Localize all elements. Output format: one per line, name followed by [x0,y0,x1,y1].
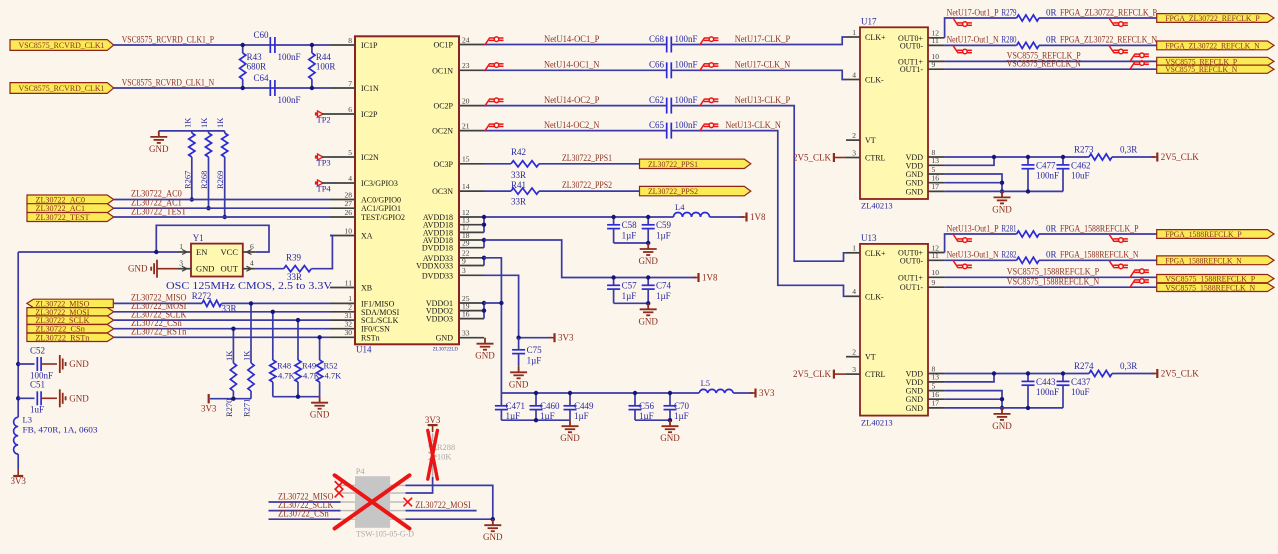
diff-pair marker VSC8575_REFCLK_N [1130,61,1149,69]
U17 pin 9 OUT1- [928,68,945,70]
wire R274 to 2V5_CLK [1112,373,1155,375]
svg-text:XB: XB [361,284,372,293]
ground (R267 group) [150,131,167,143]
svg-text:16: 16 [932,174,940,183]
svg-text:TP3: TP3 [317,157,331,167]
U14 pin 32 IF0/CSN [330,328,355,330]
capacitor C477 100nF [1027,157,1029,165]
wire FPGA_ZL30722_REFCLK_P [1039,17,1157,19]
wire NetU17-Out1_N [945,44,1017,46]
svg-text:GND: GND [906,170,924,179]
svg-text:C59: C59 [656,220,672,230]
svg-text:17: 17 [932,399,940,408]
svg-text:VDDXO33: VDDXO33 [416,262,453,271]
svg-text:0,3R: 0,3R [1120,145,1137,155]
wire P4 MOSI [406,510,477,512]
wire NetU13-CLK_N [672,131,846,297]
svg-text:C477: C477 [1036,160,1056,170]
svg-text:ZL30722_PPS2: ZL30722_PPS2 [648,186,698,196]
U17 pin 4 CLK- [846,79,860,81]
P4 pin row 3 stubs [341,501,356,503]
wire VDDO1 to vertical [484,302,501,304]
svg-text:NetU13-CLK_N: NetU13-CLK_N [725,120,781,130]
capacitor C66 100nF [666,62,668,78]
svg-text:C62: C62 [649,95,664,105]
svg-text:NetU14-OC1_N: NetU14-OC1_N [544,60,600,70]
svg-text:VSC8575_REFCLK_N: VSC8575_REFCLK_N [1165,64,1237,74]
svg-text:GND: GND [128,264,148,274]
resistor R271 1K [250,303,252,363]
svg-text:100nF: 100nF [278,52,301,62]
svg-text:CLK+: CLK+ [865,33,886,42]
wire L4 to 1V8 [710,216,745,218]
junction [1000,189,1004,193]
svg-text:VDD: VDD [906,161,924,170]
wire R273 to 2V5_CLK [1112,156,1155,158]
svg-text:GND: GND [992,421,1012,431]
wire ZL30722_MISO [113,302,202,304]
svg-text:C56: C56 [639,401,655,411]
svg-text:1V8: 1V8 [702,273,718,283]
svg-text:10: 10 [345,226,353,235]
svg-text:R49: R49 [302,361,316,371]
svg-text:2V5_CLK: 2V5_CLK [793,152,832,162]
diff-pair marker FPGA_ZL30722_REFCLK_P [1109,18,1128,26]
diff-pair marker OC1P [485,37,504,45]
svg-text:20: 20 [462,96,470,105]
wire GND rail for R267-R269 [159,130,225,132]
port VSC8575_REFCLK_N [1157,65,1274,73]
svg-text:U13: U13 [861,233,877,243]
P4 pin row 2 stubs [341,492,356,494]
resistor R282 0R [1017,257,1039,263]
wire 3V3 feed vertical [17,252,19,417]
wire ZL30722_PPS2 [539,190,640,192]
junction [1000,181,1004,185]
wire AVDD33 to 3V3 vertical [484,258,501,393]
svg-text:24: 24 [462,35,470,44]
oscillator Y1 body [191,244,243,277]
port FPGA_1588REFCLK_P [1157,230,1274,239]
junction [491,517,495,521]
svg-text:VDDO3: VDDO3 [426,315,453,324]
svg-text:FPGA_1588REFCLK_P: FPGA_1588REFCLK_P [1165,229,1242,239]
connector P4 body (not fitted) [355,476,390,528]
U17 pin 11 OUT0- [928,44,945,46]
U17 pin 17 GND [928,190,945,192]
svg-text:FPGA_ZL30722_REFCLK_N: FPGA_ZL30722_REFCLK_N [1165,40,1260,50]
U17 pin 10 OUT1+ [928,60,945,62]
IC U13 ZL40213 body [860,244,928,416]
svg-text:R280: R280 [1002,35,1017,45]
svg-text:100nF: 100nF [675,120,698,130]
wire NetU13-Out1_P [945,234,1017,253]
diff-pair marker VSC8575_REFCLK_P [1130,53,1149,61]
svg-text:CLK-: CLK- [865,76,884,85]
U14 pin 23 OC1N [459,69,484,71]
diff-pair marker OC2N [485,123,504,131]
U13 pin 16 GND [928,398,945,400]
junction [482,301,486,305]
wire 3V3 bottom rail [501,392,699,394]
power 3V3 (VDDO) [754,389,756,398]
svg-text:C58: C58 [622,220,638,230]
svg-text:680R: 680R [247,62,267,72]
svg-text:C70: C70 [674,401,690,411]
junction [633,391,637,395]
wire DVDD18 to 1V8 rail [484,240,696,278]
svg-text:100nF: 100nF [278,95,301,105]
svg-text:GND: GND [560,433,580,443]
U14 pin 16 VDDO3 [459,318,484,320]
svg-text:IC3/GPIO3: IC3/GPIO3 [361,179,398,188]
ground (P4) [484,519,501,531]
U14 pin 26 TEST/GPIO2 [330,216,355,218]
junction [482,238,486,242]
svg-text:7: 7 [348,79,352,88]
svg-text:0R: 0R [1046,223,1057,233]
inductor L5 [699,389,733,393]
svg-text:GND: GND [509,379,529,389]
wire ZL30722_MOSI [114,311,330,313]
junction [611,275,615,279]
svg-text:ZL30722_PPS2: ZL30722_PPS2 [562,180,612,190]
svg-text:1uF: 1uF [30,405,44,415]
wire NetU13-Out1_N [945,259,1017,261]
svg-text:TP4: TP4 [317,183,332,193]
U14 pin 25 VDDO1 [459,302,484,304]
U14 pin 7 IC1N [330,87,355,89]
svg-text:2: 2 [852,131,856,140]
port ZL30722_RSTn [27,333,114,341]
diff-pair marker FPGA_ZL30722_REFCLK_N [1109,45,1128,53]
no-ERC cross P4 pin3 [335,489,343,497]
resistor R268 1K [208,131,210,133]
svg-text:33: 33 [462,329,470,338]
svg-text:GND: GND [69,359,89,369]
svg-text:4: 4 [348,174,352,183]
svg-text:2V5_CLK: 2V5_CLK [1161,369,1200,379]
junction [1026,189,1030,193]
diff-pair marker VSC8575_1588REFCLK_P [1130,269,1149,277]
wire AVDD18 pins join [483,217,485,232]
junction [611,215,615,219]
resistor R273 0,3R [1089,154,1112,160]
junction [534,418,538,422]
junction [992,155,996,159]
junction [1061,371,1065,375]
resistor R48 4.7K [272,312,274,360]
svg-text:100nF: 100nF [1036,387,1059,397]
power 2V5_CLK (U13 CTRL) [833,370,835,379]
svg-text:FPGA_1588REFCLK_P: FPGA_1588REFCLK_P [1060,223,1139,233]
P4 pin row 5 stubs [341,518,356,520]
junction [534,391,538,395]
power 1V8 (DVDD) [697,273,699,282]
U13 pin 2 VT [846,356,860,358]
port VSC8575_1588REFCLK_N [1157,283,1274,291]
ground (U14 GND pin) [477,338,494,350]
svg-text:C460: C460 [540,401,560,411]
capacitor C59 1uF [647,217,649,225]
svg-text:FPGA_ZL30722_REFCLK_N: FPGA_ZL30722_REFCLK_N [1060,35,1157,45]
ground (C449) [562,420,579,432]
wire AVDD18 rail [484,216,674,218]
svg-text:4: 4 [852,70,856,79]
svg-text:ZL30722_TEST: ZL30722_TEST [36,212,91,222]
wire U17 GND5 [945,174,1002,191]
svg-text:R268: R268 [199,171,209,189]
svg-text:R52: R52 [324,361,338,371]
wire 3V3 row [519,337,552,339]
svg-text:2: 2 [852,348,856,357]
capacitor C74 1uF [647,278,649,286]
diff-pair marker NetU17-CLK_N [700,63,719,71]
U13 pin 12 OUT0+ [928,252,945,254]
svg-text:VSC8575_1588REFCLK_N: VSC8575_1588REFCLK_N [1007,277,1100,287]
wire P4 CSn [269,518,341,520]
svg-text:9: 9 [462,256,466,265]
svg-text:33R: 33R [511,197,526,207]
resistor R49 4.7K [297,320,299,360]
svg-text:GND: GND [149,144,169,154]
diff-pair marker FPGA_1588REFCLK_P [1109,234,1128,242]
wire VDDO join [483,303,485,319]
svg-text:10K: 10K [437,451,453,461]
svg-text:1K: 1K [199,117,209,128]
svg-text:RSTn: RSTn [361,333,380,342]
wire P4 MISO [269,501,341,503]
U14 pin 18 AVDD18 [459,239,484,241]
svg-text:26: 26 [345,208,353,217]
junction [646,275,650,279]
U13 pin 17 GND [928,407,945,409]
port FPGA_1588REFCLK_N [1157,256,1274,265]
wire R272 to IF1/MISO [222,302,331,304]
svg-text:R274: R274 [1074,361,1094,371]
svg-text:C52: C52 [30,345,45,355]
ground (C70) [662,420,679,432]
ground bar (C51) [60,389,66,407]
svg-text:Y1: Y1 [193,233,204,243]
svg-text:1: 1 [852,28,856,37]
capacitor C462 10uF [1062,157,1064,165]
power 1V8 (AVDD) [745,213,747,222]
power 3V3 (R288) [428,424,438,426]
wire ZL30722_TEST [114,216,330,218]
U13 pin 10 OUT1+ [928,276,945,278]
wire ZL30722_AC0 [114,199,330,201]
svg-text:C51: C51 [30,380,45,390]
svg-text:ZL40213: ZL40213 [861,201,893,211]
svg-text:GND: GND [906,187,924,196]
svg-text:4.7K: 4.7K [278,371,296,381]
diff-pair marker NetU13-Out1_N [953,260,972,268]
junction [646,215,650,219]
svg-text:4: 4 [852,287,856,296]
wire P4 pin2 to GND [406,485,493,519]
wire R39 to XA [311,236,332,269]
svg-text:R48: R48 [277,361,291,371]
inductor L3 FB [14,417,19,454]
Y1 pin 3 GND [178,268,191,270]
svg-text:1µF: 1µF [622,291,637,301]
svg-text:6: 6 [348,105,352,114]
svg-text:GND: GND [992,204,1012,214]
svg-text:GND: GND [69,393,89,403]
svg-text:DVDD33: DVDD33 [422,271,453,280]
svg-text:16: 16 [462,309,470,318]
port ZL30722_PPS2 [640,186,751,195]
svg-text:10uF: 10uF [1071,171,1090,181]
svg-text:R39: R39 [286,253,302,263]
U14 pin 22 AVDD33 [459,257,484,259]
port ZL30722_MOSI [27,308,114,316]
svg-text:R267: R267 [182,171,192,189]
svg-text:11: 11 [932,251,939,260]
wire VSC8575_1588REFCLK_P [945,276,1157,278]
svg-text:R42: R42 [511,147,526,157]
svg-text:IC1N: IC1N [361,84,379,93]
svg-text:2V5_CLK: 2V5_CLK [793,369,832,379]
svg-text:NetU14-OC2_N: NetU14-OC2_N [544,120,600,130]
resistor R288 10K (not fitted) [432,433,434,441]
svg-text:C74: C74 [656,281,672,291]
svg-text:CLK-: CLK- [865,292,884,301]
power 3V3 (L3) [13,475,23,477]
svg-text:VSC8575_RCVRD_CLK1: VSC8575_RCVRD_CLK1 [19,40,105,50]
svg-text:0R: 0R [1046,7,1057,17]
svg-text:C471: C471 [506,401,526,411]
svg-text:TEST/GPIO2: TEST/GPIO2 [361,213,405,222]
ground (C58/C59) [640,243,657,255]
svg-text:NetU14-OC2_P: NetU14-OC2_P [544,95,599,105]
svg-text:GND: GND [906,179,924,188]
ground (R48 group) [311,397,328,409]
svg-text:OUT0-: OUT0- [900,41,923,50]
svg-text:VSC8575_RCVRD_CLK1: VSC8575_RCVRD_CLK1 [19,83,105,93]
power 2V5_CLK (U13 VDD) [1156,369,1158,378]
svg-text:IC2N: IC2N [361,153,379,162]
svg-text:OC1N: OC1N [432,66,453,75]
diff-pair marker NetU13-Out1_P [953,234,972,242]
wire OC3N to R41 [484,190,511,192]
junction RSTn/R52 [317,335,321,339]
svg-text:1K: 1K [182,117,192,128]
junction [241,43,245,47]
svg-text:R272: R272 [192,291,212,301]
capacitor C460 1uF [535,393,537,406]
svg-text:NetU13-Out1_P: NetU13-Out1_P [947,223,999,233]
U14 pin 5 IC2N [330,156,355,158]
svg-text:1µF: 1µF [656,291,671,301]
svg-text:100nF: 100nF [675,34,698,44]
U13 pin 3 CTRL [846,373,860,375]
wire NetU13-CLK_P [672,106,846,262]
svg-text:ZL30722_CSn: ZL30722_CSn [278,509,329,519]
svg-text:33R: 33R [511,170,526,180]
junction [499,301,503,305]
svg-text:L3: L3 [23,415,32,425]
U17 pin 16 GND [928,182,945,184]
port ZL30722_TEST [27,213,114,222]
svg-text:CTRL: CTRL [865,154,886,163]
junction [231,397,235,401]
svg-text:OUT1+: OUT1+ [898,273,923,282]
ground (Y1 GND pin) [157,268,178,270]
ground (C57/C74) [640,303,657,315]
wire VSC8575_1588REFCLK_N [945,286,1157,288]
Y1 pin 4 OUT [243,268,256,270]
junction [482,308,486,312]
svg-text:11: 11 [932,36,939,45]
resistor R280 0R [1017,42,1039,48]
svg-text:1: 1 [179,242,183,251]
U13 pin 4 CLK- [846,295,860,297]
wire NetU17-Out1_P [945,18,1017,38]
svg-text:CLK+: CLK+ [865,249,886,258]
svg-text:14: 14 [462,182,470,191]
junction [482,215,486,219]
U14 pin 1 IF1/MISO [330,302,355,304]
U14 pin 14 OC3N [459,190,484,192]
svg-text:1V8: 1V8 [750,212,766,222]
diff-pair marker NetU17-CLK_P [700,37,719,45]
U14 pin 29 DVDD18 [459,247,484,249]
wire AVDD33/VDDXO33 join [483,258,485,266]
U14 pin 20 OC2P [459,105,484,107]
svg-text:C462: C462 [1071,160,1091,170]
capacitor C449 1uF [569,393,571,406]
svg-text:IC2P: IC2P [361,110,378,119]
resistor R279 0R [1017,15,1039,21]
svg-text:FB, 470R, 1A, 0603: FB, 470R, 1A, 0603 [23,425,98,435]
port ZL30722_AC1 [27,204,114,213]
svg-text:C68: C68 [649,34,665,44]
capacitor C60 100nF [269,37,271,53]
capacitor C57 1uF [613,278,615,286]
junction [1000,406,1004,410]
wire U17 GND17 rail [945,190,1063,192]
wire U17 VDD rail [945,156,1089,158]
U14 pin 31 SCL/SCLK [330,319,355,321]
capacitor C65 100nF [666,123,668,139]
IC U17 ZL40213 body [860,27,928,199]
svg-text:1K: 1K [242,350,252,361]
P4 pin row 4 stubs [341,510,356,512]
wire P4 SCLK [269,510,341,512]
svg-text:C60: C60 [253,30,269,40]
svg-text:C66: C66 [649,60,665,70]
U17 pin 3 CTRL [846,157,860,159]
U14 pin 27 AC1/GPIO1 [330,207,355,209]
svg-text:100R: 100R [316,62,336,72]
svg-text:1µF: 1µF [527,356,542,366]
U13 pin 9 OUT1- [928,286,945,288]
U14 pin 9 VDDXO33 [459,265,484,267]
wire U13 GND5 [945,391,1002,408]
wire OC3P to R42 [484,163,511,165]
capacitor C471 1uF [500,393,502,406]
svg-text:11: 11 [345,278,352,287]
svg-text:0,3R: 0,3R [1120,361,1137,371]
svg-text:ZL30722LD: ZL30722LD [433,348,459,353]
svg-text:4: 4 [250,259,254,268]
junction [1000,397,1004,401]
svg-text:ZL30722_RSTn: ZL30722_RSTn [131,327,187,337]
wire C471-C449 gnd rail [501,419,570,421]
U17 pin 12 OUT0+ [928,37,945,39]
